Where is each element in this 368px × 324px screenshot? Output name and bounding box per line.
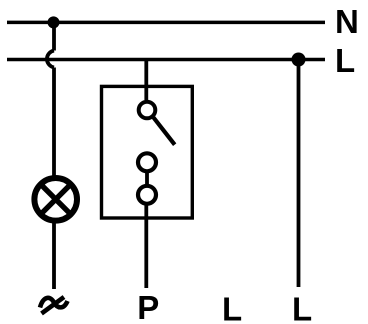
svg-text:L: L [335,42,355,79]
svg-text:L: L [292,291,312,324]
svg-text:L: L [222,291,242,324]
svg-text:N: N [335,3,359,40]
svg-text:P: P [137,289,159,324]
